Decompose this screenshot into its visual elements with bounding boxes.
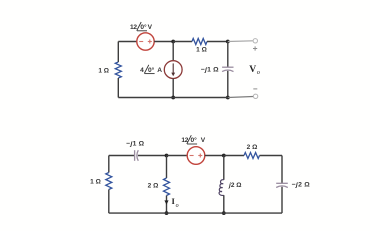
node junction dot (bottom rail / inductor) — [222, 211, 226, 215]
wire: top rail capacitor to node C — [138, 155, 167, 157]
svg-text:12: 12 — [130, 24, 137, 31]
svg-text:1 Ω: 1 Ω — [98, 68, 109, 75]
svg-text:o: o — [257, 69, 260, 76]
wire: bottom circuit left vertical (lower lead) — [108, 190, 110, 214]
wire: top rail from resistor R2 to node B — [207, 41, 228, 43]
resistor R3 1ohm (bottom circuit, left branch) — [106, 173, 112, 190]
svg-text:V: V — [201, 137, 206, 144]
node junction dot (bottom rail / current source) — [171, 96, 175, 100]
wire: right vertical lower lead — [281, 187, 283, 213]
wire: top rail node D to resistor R5 — [224, 155, 244, 157]
svg-text:2 Ω: 2 Ω — [148, 183, 159, 190]
wire: right vertical upper lead — [281, 156, 283, 184]
resistor R2 1ohm (top rail, horizontal) — [192, 39, 207, 45]
svg-text:j2 Ω: j2 Ω — [228, 182, 241, 189]
wire: top rail resistor R5 to right corner — [260, 155, 283, 157]
svg-text:−j2 Ω: −j2 Ω — [292, 182, 311, 189]
wire: top rail node C to voltage source V2 — [167, 155, 188, 157]
svg-text:−j1 Ω: −j1 Ω — [126, 141, 144, 148]
svg-text:4: 4 — [140, 67, 144, 74]
wire: capacitor branch lower lead — [227, 71, 229, 98]
svg-text:2 Ω: 2 Ω — [247, 144, 258, 151]
wire: top circuit left vertical (upper lead) — [117, 42, 119, 63]
wire: capacitor branch upper lead — [227, 42, 229, 68]
capacitor C2 -j1 ohm (horizontal, top rail) — [134, 150, 136, 161]
node B junction dot (top rail / capacitor) — [226, 40, 230, 44]
wire: current source branch lower lead — [172, 79, 174, 98]
wire: inductor branch upper lead — [223, 156, 225, 180]
svg-text:1 Ω: 1 Ω — [90, 178, 101, 185]
svg-text:V: V — [249, 64, 256, 75]
svg-text:−j1 Ω: −j1 Ω — [201, 66, 219, 73]
resistor R1 1ohm (top circuit, left branch) — [115, 62, 121, 78]
wire: top rail to capacitor C2 — [109, 155, 135, 157]
resistor R4 2ohm (bottom circuit, vertical) — [164, 178, 170, 196]
terminal: upper output (open circle) — [253, 39, 257, 43]
svg-text:A: A — [157, 67, 162, 74]
wire: top circuit left vertical (lower lead) — [117, 78, 119, 98]
node junction dot (bottom rail / 2-ohm branch) — [165, 211, 169, 215]
node A junction dot (top rail / current source) — [171, 40, 175, 44]
svg-text:1 Ω: 1 Ω — [196, 46, 207, 53]
node junction dot (bottom rail / capacitor) — [226, 96, 230, 100]
wire: lead to upper output terminal (light) — [228, 40, 253, 43]
node D junction dot (top rail / inductor) — [222, 154, 226, 158]
voltage source V2 12V (bottom circuit) — [187, 147, 205, 165]
capacitor C3 -j2 ohm (right branch) — [276, 182, 288, 184]
wire: current source branch upper lead — [172, 42, 174, 61]
svg-text:0°: 0° — [140, 23, 147, 31]
voltage source V1 (top circuit) — [137, 33, 154, 50]
current source I1 4A (top circuit, arrow down) — [164, 61, 182, 79]
wire: bottom rail of top circuit — [118, 97, 228, 99]
wire: top rail from node A to resistor R2 — [173, 41, 192, 43]
wire: 2-ohm branch upper lead — [166, 156, 168, 179]
inductor L1 j2 ohm (bottom circuit) — [219, 180, 224, 196]
wire: lead to lower output terminal — [228, 97, 253, 98]
svg-text:V: V — [148, 24, 153, 31]
polarity minus sign (Vo) — [253, 88, 257, 90]
svg-text:0°: 0° — [148, 66, 155, 74]
capacitor C1 -j1 ohm (top circuit) — [222, 66, 233, 68]
current arrow Io (pointing down) — [164, 200, 168, 204]
wire: top rail from voltage source to node A — [154, 41, 173, 43]
node C junction dot (top rail / 2-ohm branch) — [165, 154, 169, 158]
wire: bottom circuit left vertical (upper lead) — [108, 156, 110, 173]
wire: bottom rail of bottom circuit — [109, 212, 282, 214]
resistor R5 2ohm (top rail right, horizontal) — [244, 153, 260, 159]
wire: 2-ohm branch lower lead with Io arrow — [166, 196, 168, 214]
svg-text:0°: 0° — [191, 136, 198, 144]
terminal: lower output (open circle) — [253, 94, 257, 98]
wire: inductor branch lower lead — [223, 195, 225, 213]
polarity plus sign (Vo) — [253, 46, 257, 50]
svg-text:o: o — [176, 203, 179, 209]
wire: top rail voltage source to node D — [205, 155, 224, 157]
wire: top rail from left corner to voltage source — [118, 41, 137, 43]
